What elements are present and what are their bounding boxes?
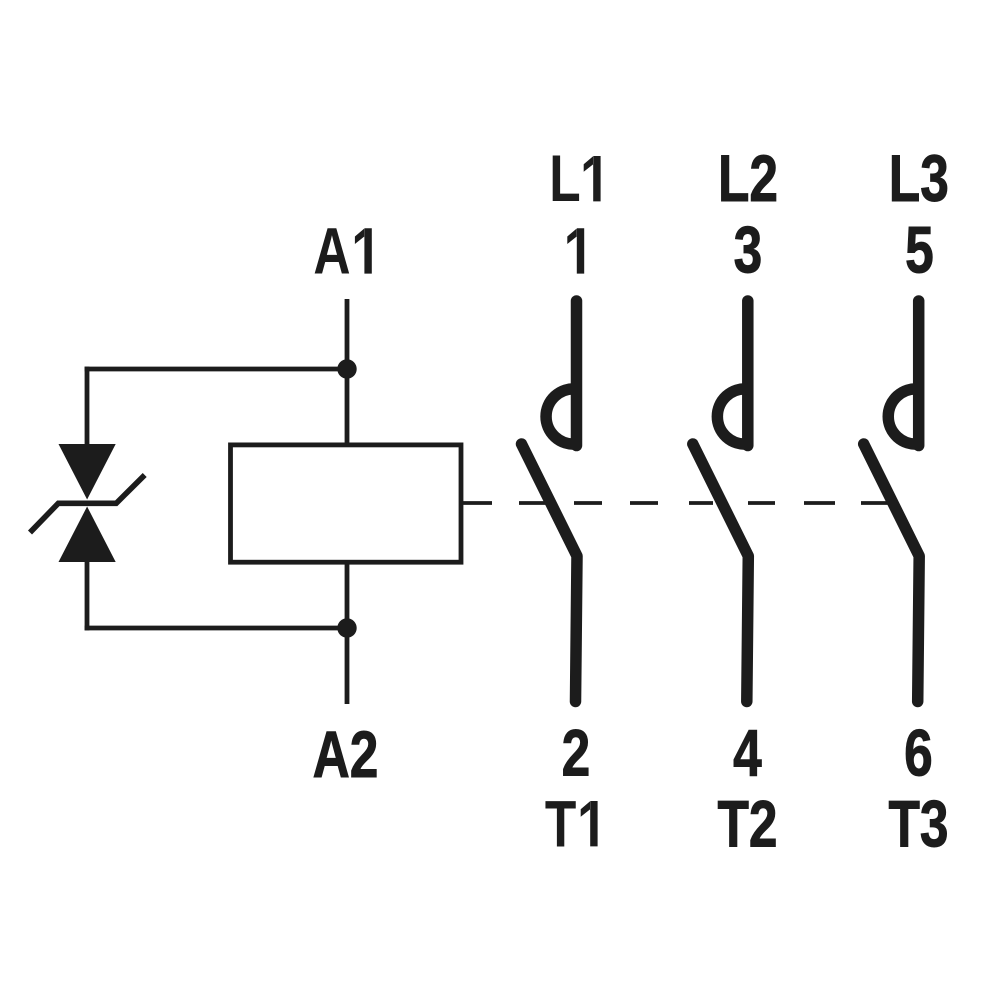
pole 2 moving blade: [693, 444, 749, 702]
svg-text:3: 3: [734, 212, 763, 287]
pole 3 moving blade: [864, 444, 920, 702]
svg-text:T3: T3: [888, 786, 948, 861]
svg-text:2: 2: [562, 715, 591, 790]
pole 1 moving blade: [522, 444, 578, 702]
svg-text:T: T: [545, 786, 576, 861]
wire left branch upper: [85, 367, 90, 446]
wire mechanical linkage dashed: [519, 501, 888, 505]
pole 3 arc hook: [888, 389, 918, 444]
suppressor diode bottom triangle: [59, 507, 116, 563]
wire A1 lead: [345, 299, 350, 447]
svg-text:5: 5: [905, 212, 934, 287]
svg-text:4: 4: [733, 715, 762, 790]
coil K1 rectangle: [231, 445, 462, 562]
pole 3 fixed contact line: [913, 301, 925, 446]
wire coil bottom lead: [345, 562, 350, 628]
wire left branch lower: [85, 560, 90, 630]
wire actuator stub: [461, 501, 492, 505]
wire bottom horizontal: [85, 626, 347, 631]
node junction bottom: [337, 618, 356, 637]
node junction top: [337, 359, 356, 378]
svg-text:L3: L3: [889, 141, 949, 216]
suppressor diode zener bar with wings: [30, 475, 145, 533]
svg-text:A2: A2: [313, 717, 379, 792]
wire A2 lead: [345, 628, 350, 704]
svg-text:A: A: [313, 213, 350, 288]
label T1: [545, 786, 598, 861]
svg-text:L2: L2: [718, 141, 778, 216]
label A1: [313, 213, 371, 288]
label terminal 1: [567, 228, 584, 273]
pole 2 arc hook: [717, 389, 747, 444]
label L1: [549, 141, 600, 216]
svg-text:6: 6: [904, 715, 933, 790]
svg-text:L: L: [549, 141, 580, 216]
svg-text:T2: T2: [717, 786, 777, 861]
pole 1 fixed contact line: [571, 301, 583, 446]
suppressor diode top triangle: [59, 444, 116, 500]
pole 1 arc hook: [546, 389, 576, 444]
wire top horizontal: [85, 367, 347, 372]
pole 2 fixed contact line: [742, 301, 754, 446]
